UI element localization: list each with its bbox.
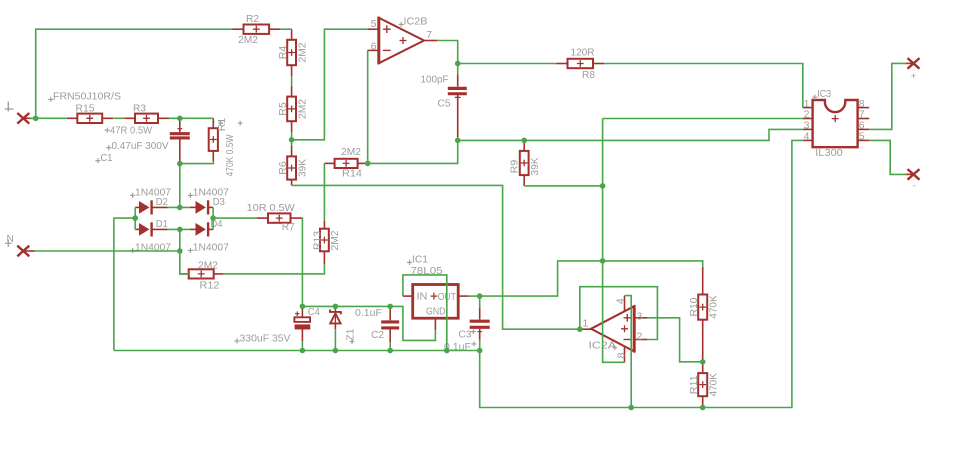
wire R14 node to C5 bottom column (368, 140, 458, 163)
svg-text:39K: 39K (529, 158, 541, 176)
wire node C1-bottom down to bridge (179, 164, 181, 208)
svg-text:39K: 39K (296, 159, 308, 177)
svg-text:2M2: 2M2 (341, 146, 361, 158)
resistor R13 (323, 221, 325, 229)
node C4 top (300, 304, 306, 310)
svg-text:4: 4 (614, 298, 626, 304)
resistor R7 (257, 217, 268, 219)
svg-text:C2: C2 (371, 329, 384, 341)
wire C2 top stub (389, 306, 391, 308)
svg-text:2M2: 2M2 (296, 42, 308, 62)
node divider R5/R6 (289, 137, 295, 143)
node C4 bottom rail (300, 348, 306, 354)
capacitor C2 (389, 309, 391, 321)
terminal X3 + (output plus) (908, 58, 920, 69)
diode D3 (190, 206, 196, 208)
svg-text:2M2: 2M2 (198, 260, 218, 272)
svg-text:R10: R10 (688, 297, 700, 316)
wire output node to R8 (458, 63, 557, 65)
node V+ rail (628, 405, 634, 411)
label 1N4007 (D4) (188, 248, 193, 253)
wire IC3 pin5 to - terminal (869, 140, 906, 174)
wire output node down to C5 (457, 64, 459, 75)
svg-text:R6: R6 (277, 161, 289, 175)
op-amp IC2A (591, 306, 634, 351)
node R9 top (521, 138, 527, 144)
node C2 top (387, 304, 393, 310)
label IC2B (399, 22, 404, 27)
wire R15 to R3 (113, 117, 124, 119)
wire R12 right to R13 bottom (223, 264, 324, 274)
resistor R4 (291, 29, 293, 40)
wire Z1 bottom to rail (334, 329, 336, 350)
svg-text:IN: IN (417, 291, 428, 303)
svg-text:0.1uF: 0.1uF (355, 307, 382, 319)
svg-text:R8: R8 (582, 69, 595, 81)
svg-text:R7: R7 (282, 221, 295, 233)
wire C4 bottom to rail (301, 341, 303, 351)
svg-text:5: 5 (371, 18, 377, 30)
svg-text:C3: C3 (459, 328, 472, 340)
svg-text:470K: 470K (708, 295, 720, 319)
capacitor C1 (179, 118, 181, 132)
voltage regulator IC1 78L05 (413, 285, 459, 319)
resistor R10 (702, 267, 704, 295)
label 47R 0.5W (105, 128, 110, 133)
wire R8 to IC3 pin1 (604, 64, 803, 108)
wire C5 bottom node to IC3 pin3 (458, 129, 803, 140)
label FRN50J10R/S (48, 97, 53, 102)
wire C2 bottom to rail (389, 342, 391, 350)
svg-text:R3: R3 (133, 102, 146, 114)
node bridge bottom (177, 227, 183, 233)
node C3 bottom rail (477, 348, 483, 354)
svg-text:470K 0.5W: 470K 0.5W (224, 134, 236, 176)
wire IC1 OUT to node (469, 295, 480, 297)
wire bottom rail (114, 140, 803, 407)
svg-text:R9: R9 (509, 160, 521, 174)
resistor R11 (702, 362, 704, 373)
svg-text:IC1: IC1 (412, 253, 428, 265)
wire bridge left node to rail column (114, 218, 135, 350)
svg-text:470K: 470K (708, 373, 720, 397)
label 1N4007 (D3) (188, 193, 193, 198)
svg-text:2M2: 2M2 (238, 34, 258, 46)
node Z1 top (333, 304, 339, 310)
wire bridge right node vertical (212, 207, 214, 229)
wire IC2B output down to R8 node (437, 41, 458, 64)
svg-text:D1: D1 (156, 218, 168, 230)
svg-text:6: 6 (371, 41, 377, 53)
wire L terminal to R15 (30, 117, 67, 119)
wire IC1 OUT node to R10 top (480, 261, 703, 296)
svg-text:1N4007: 1N4007 (193, 241, 229, 253)
svg-text:R12: R12 (200, 280, 220, 292)
diode D4 (190, 228, 196, 230)
node R10/R11/pin3 (700, 359, 706, 365)
svg-text:R11: R11 (688, 375, 700, 394)
svg-text:3: 3 (637, 310, 643, 322)
svg-text:R5: R5 (277, 102, 289, 116)
svg-text:R14: R14 (342, 167, 362, 179)
svg-text:2M2: 2M2 (296, 99, 308, 119)
label 0.47uF 300V (106, 145, 111, 150)
svg-text:+: + (911, 71, 917, 82)
wire R9 bottom to IC3 pin2 column (524, 185, 602, 187)
wire IC1 IN over box to bottom rail (403, 275, 447, 351)
terminal X1 L (mains live) (17, 113, 29, 124)
resistor R14 (324, 162, 334, 164)
svg-text:4: 4 (804, 131, 810, 143)
wire IC3 pin2 column down to IC2A V- (603, 119, 625, 363)
resistor R6 (291, 145, 293, 156)
svg-text:120R: 120R (571, 47, 595, 59)
label 1N4007 (D1) (130, 248, 135, 253)
diode D1 (135, 228, 139, 230)
pin origin + (IC1 OUT) (431, 293, 438, 300)
node Z1 bottom rail (333, 348, 339, 354)
diode D2 (135, 206, 139, 208)
label IC3 (812, 95, 817, 100)
svg-text:FRN50J10R/S: FRN50J10R/S (53, 91, 121, 103)
wire L terminal to R2 (up and across top) (36, 29, 233, 118)
capacitor C4 (301, 306, 303, 317)
svg-text:GND: GND (426, 305, 446, 317)
wire R2 to R4 column (280, 28, 291, 30)
wire bridge left node vertical (134, 207, 136, 229)
wire C1 bottom to R1 bottom (180, 161, 214, 164)
net label L (7, 102, 9, 112)
resistor R15 (67, 117, 78, 119)
resistor R12 (180, 273, 189, 275)
wire C-row to IC1 GND (302, 306, 435, 340)
node R3/C1/R1 (177, 116, 183, 122)
zener diode Z1 (334, 306, 336, 311)
node IC2B output/C5 (455, 61, 461, 67)
wire bridge right node to R7 (213, 217, 257, 219)
svg-text:R15: R15 (76, 102, 95, 114)
svg-text:IC2B: IC2B (404, 15, 428, 27)
svg-text:8: 8 (615, 352, 627, 358)
node R9/IC3 pin2 net (600, 183, 606, 189)
node R11 bottom rail (700, 405, 706, 411)
resistor R2 (233, 28, 244, 30)
svg-text:330uF 35V: 330uF 35V (240, 332, 291, 344)
node N/bridge (177, 248, 183, 254)
svg-text:D2: D2 (156, 196, 168, 208)
node IN-wire rail (444, 348, 450, 354)
capacitor C3 (479, 307, 481, 319)
resistor R3 (124, 117, 135, 119)
node C2 bottom rail (387, 348, 393, 354)
terminal X4 - (output minus) (908, 169, 920, 180)
svg-text:C4: C4 (308, 306, 320, 318)
node L junction (33, 116, 39, 122)
label 330uF 35V (234, 338, 239, 343)
svg-text:Z1: Z1 (345, 328, 357, 340)
wire IC2B pin6 down to R14 (367, 50, 369, 163)
node C1-bottom/R1-bottom (177, 161, 183, 167)
node bridge right (210, 215, 216, 221)
node IC1 OUT/C3 (477, 293, 483, 299)
svg-text:47R 0.5W: 47R 0.5W (110, 125, 152, 137)
terminal X2 N (mains neutral) (17, 246, 29, 257)
svg-text:C5: C5 (438, 97, 451, 109)
wire R14 left to R13 top (323, 163, 325, 220)
node bridge top (177, 205, 183, 211)
svg-text:IL300: IL300 (815, 147, 843, 159)
svg-text:R2: R2 (246, 13, 259, 25)
svg-text:R13: R13 (312, 231, 324, 250)
resistor R8 (557, 63, 568, 65)
svg-text:R1: R1 (216, 118, 228, 132)
wire divider node to IC2B pin5 (292, 29, 368, 140)
label IC1 (407, 260, 412, 265)
wire OUT node down to C3 (479, 296, 481, 307)
wire D2-D3 node (168, 206, 190, 208)
svg-text:5: 5 (859, 131, 865, 143)
svg-text:R4: R4 (277, 46, 289, 60)
wire D1-D4 node (168, 228, 190, 230)
svg-text:0.47uF 300V: 0.47uF 300V (112, 140, 169, 152)
wire N terminal to bridge (35, 250, 180, 252)
svg-text:100pF: 100pF (421, 74, 449, 86)
op-amp IC2B (379, 18, 424, 63)
svg-text:2: 2 (637, 330, 643, 342)
wire R5 to R6 through node (291, 132, 293, 145)
svg-text:1: 1 (582, 317, 588, 329)
wire R4 to R5 (291, 76, 293, 86)
resistor R1 (212, 118, 214, 128)
svg-text:7: 7 (426, 29, 432, 41)
node bridge left (132, 215, 138, 221)
node C5-bottom (455, 138, 461, 144)
wire IC2A feedback loop out to pin2 (580, 287, 658, 340)
label 1N4007 (D2) (130, 193, 135, 198)
svg-text:C1: C1 (101, 152, 113, 164)
svg-text:10R 0.5W: 10R 0.5W (247, 202, 295, 214)
svg-text:2M2: 2M2 (329, 230, 341, 250)
node OUT rail/IC3 pin2 net (600, 258, 606, 264)
node IC2A output (577, 326, 583, 332)
optocoupler IC3 IL300 (813, 100, 858, 147)
wire IC3 pin2 across (603, 118, 803, 120)
wire bridge bottom node to R12 (180, 229, 189, 274)
resistor R5 (291, 86, 293, 97)
resistor R9 (523, 140, 525, 151)
svg-text:IC3: IC3 (817, 88, 831, 100)
label C1 (95, 158, 100, 163)
svg-text:-: - (913, 180, 916, 191)
capacitor C5 (457, 75, 459, 87)
wire C3 bottom to rail (479, 340, 481, 351)
wire IC2A pin3 to R10/R11 node (647, 318, 703, 362)
node R14/IC2B pin6 (365, 161, 371, 167)
wire R6 bottom to IC2A output (292, 185, 580, 329)
wire R3 to C1/R1 node (169, 117, 213, 119)
wire IC2A V+ down to bottom rail (625, 296, 632, 408)
wire IC3 pin6 to + terminal (869, 63, 906, 129)
svg-text:D3: D3 (213, 196, 225, 208)
wire R7 down to C4 node (301, 218, 304, 306)
